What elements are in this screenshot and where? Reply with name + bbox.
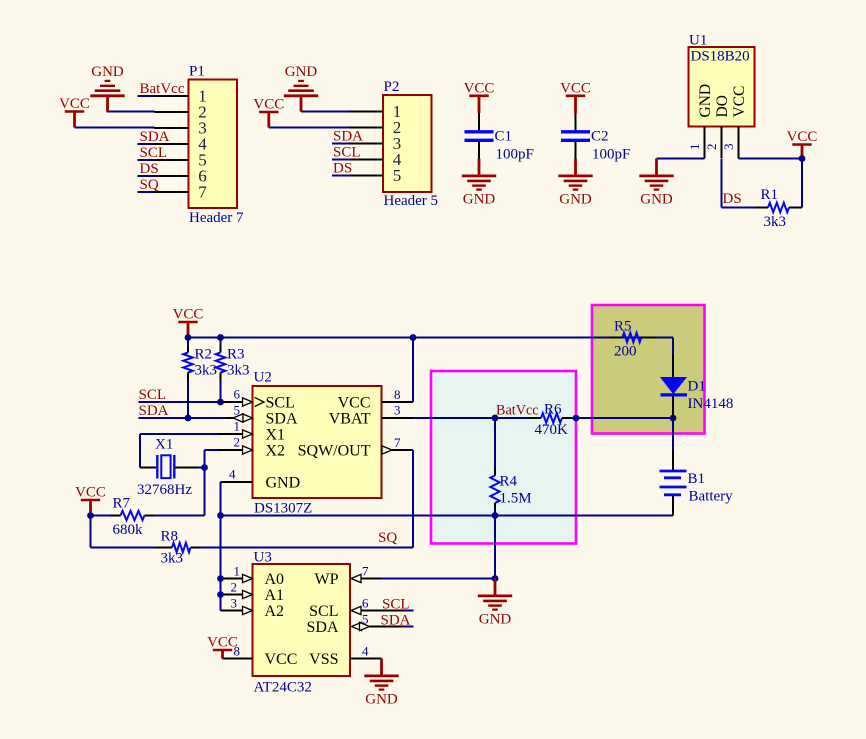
svg-text:SDA: SDA — [266, 411, 298, 428]
svg-text:GND: GND — [559, 192, 592, 208]
wire stub net SCL at U3 — [406, 610, 414, 612]
svg-text:R2: R2 — [195, 347, 213, 363]
ground GND symbol at U1 — [639, 159, 673, 208]
svg-text:SDA: SDA — [140, 129, 170, 145]
svg-text:GND: GND — [640, 192, 673, 208]
svg-text:470K: 470K — [535, 422, 569, 438]
svg-text:3: 3 — [394, 403, 401, 418]
svg-text:SDA: SDA — [333, 129, 363, 145]
ground GND symbol at P1 — [90, 64, 124, 112]
designator R8 — [161, 529, 179, 545]
resistor R5 200 — [609, 333, 655, 342]
value DS1307Z — [254, 501, 312, 517]
wire R6 to D1 node — [572, 417, 673, 419]
IC U1 DS18B20 body — [687, 47, 754, 159]
designator R4 — [500, 474, 518, 490]
svg-text:SQ: SQ — [378, 530, 397, 546]
wire crystal to junction — [198, 468, 205, 516]
net label SCL at P2 — [333, 145, 361, 161]
svg-text:SCL: SCL — [139, 387, 167, 403]
svg-text:1: 1 — [234, 564, 241, 579]
svg-text:VCC: VCC — [207, 635, 238, 651]
svg-text:U1: U1 — [689, 33, 707, 49]
svg-text:R6: R6 — [544, 402, 562, 418]
designator C1 — [495, 129, 513, 145]
ground GND symbol at C2 — [558, 159, 592, 208]
svg-text:C1: C1 — [495, 129, 513, 145]
junction A1 — [217, 591, 224, 598]
svg-text:X1: X1 — [266, 427, 286, 444]
svg-text:7: 7 — [198, 183, 207, 202]
wire stub net SDA at P2 pin 3 — [332, 143, 349, 145]
wire U2 X1 pin to crystal — [140, 434, 219, 468]
svg-text:DS18B20: DS18B20 — [691, 49, 750, 65]
resistor R7 680k — [111, 511, 155, 520]
crystal X1 32768Hz — [140, 455, 198, 479]
value 3k3 at R3 — [227, 363, 250, 379]
svg-text:VCC: VCC — [731, 86, 748, 118]
designator R7 — [113, 496, 131, 512]
wire stub net SDA at P1 pin 4 — [138, 143, 155, 145]
svg-text:3: 3 — [721, 144, 736, 151]
svg-text:X1: X1 — [155, 437, 173, 453]
value 100pF at C2 — [592, 147, 630, 163]
highlight box (olive) around R5/D1 — [592, 305, 705, 434]
wire stub net DS at P2 pin 5 — [332, 175, 349, 177]
svg-text:100pF: 100pF — [496, 147, 534, 163]
designator C2 — [591, 129, 609, 145]
svg-text:VCC: VCC — [59, 96, 90, 112]
wire R4 rail down to WP/GND node — [494, 516, 496, 579]
svg-text:7: 7 — [394, 435, 401, 450]
designator X1 — [155, 437, 173, 453]
value Battery — [689, 489, 734, 505]
designator R1 — [761, 187, 779, 203]
junction at U1 VCC node — [799, 155, 806, 162]
capacitor C2 100pF — [561, 97, 590, 159]
svg-text:680k: 680k — [113, 522, 144, 538]
junction crystal/X2/R7 node — [201, 464, 208, 471]
svg-text:SDA: SDA — [139, 403, 169, 419]
svg-text:AT24C32: AT24C32 — [254, 680, 312, 696]
ground GND symbol at WP node — [478, 579, 512, 628]
svg-text:100pF: 100pF — [592, 147, 630, 163]
resistor R3 3k3 vertical — [216, 338, 226, 403]
svg-text:SCL: SCL — [333, 145, 361, 161]
resistor R6 470K — [528, 413, 573, 422]
value 32768Hz — [137, 482, 192, 498]
svg-text:Battery: Battery — [689, 489, 734, 505]
power VCC symbol at R7 — [75, 485, 106, 516]
junction WP/R4/ground — [492, 575, 499, 582]
svg-text:5: 5 — [234, 403, 241, 418]
svg-text:SDA: SDA — [381, 613, 411, 629]
svg-text:4: 4 — [362, 644, 369, 659]
net label DS at P2 — [333, 161, 352, 177]
svg-text:3k3: 3k3 — [195, 363, 218, 379]
net label DS at P1 — [140, 161, 159, 177]
svg-text:VCC: VCC — [253, 97, 284, 113]
svg-text:8: 8 — [394, 387, 401, 402]
svg-text:VCC: VCC — [464, 80, 495, 96]
wire GND to P1 pin 2 — [107, 111, 155, 113]
svg-text:SCL: SCL — [309, 603, 338, 620]
net label SQ at SQW line — [378, 530, 397, 546]
wire VCC down to R8 line — [90, 516, 92, 548]
svg-text:2: 2 — [231, 580, 238, 595]
value 100pF at C1 — [496, 147, 534, 163]
designator R5 — [614, 319, 632, 335]
net label SCL at U2 — [139, 387, 167, 403]
designator D1 — [688, 379, 706, 395]
junction A0 — [217, 575, 224, 582]
ground GND symbol at P2 — [284, 64, 318, 112]
wire stub net SDA at U3 — [406, 626, 414, 628]
wire R8/SQ line to SQW drop — [91, 547, 414, 549]
svg-text:VCC: VCC — [787, 129, 818, 145]
svg-text:3k3: 3k3 — [161, 551, 184, 567]
svg-text:U3: U3 — [254, 550, 272, 566]
svg-text:SQ: SQ — [140, 177, 159, 193]
net label SDA at P1 — [140, 129, 170, 145]
designator U1 — [689, 33, 707, 49]
svg-text:6: 6 — [234, 387, 241, 402]
wire VCC rail to R5 — [188, 337, 673, 339]
value 1.5M — [500, 491, 532, 507]
pin 3 of U3 (A2) with input arrow — [221, 596, 253, 615]
value 3k3 at R8 — [161, 551, 184, 567]
svg-text:SQW/OUT: SQW/OUT — [298, 443, 371, 460]
wire U1 pin1 to ground — [657, 158, 705, 160]
svg-text:VCC: VCC — [75, 485, 106, 501]
svg-text:Header 5: Header 5 — [384, 193, 439, 209]
svg-text:R8: R8 — [161, 529, 179, 545]
pin 7 of U2 (SQW/OUT) with output arrow — [382, 435, 413, 454]
net label SQ at P1 — [140, 177, 159, 193]
pin 5 of U2 with bidirectional arrows — [226, 403, 253, 423]
pin 3 of U2 (VBAT) — [382, 403, 414, 419]
svg-text:VSS: VSS — [309, 651, 338, 668]
pin 8 of U2 (VCC) — [382, 387, 414, 402]
wire U1 pin3 to VCC — [739, 158, 803, 160]
wire net SCL into U2 pin 6 — [139, 401, 221, 403]
svg-text:GND: GND — [697, 84, 714, 118]
value 3k3 at R1 — [764, 214, 787, 230]
junction SDA/R2 — [185, 415, 192, 422]
designator U2 — [254, 370, 272, 386]
power VCC symbol at P2 — [253, 97, 284, 128]
power VCC symbol at C2 — [560, 80, 591, 97]
wire VBAT to BatVcc node — [413, 417, 529, 419]
svg-text:A1: A1 — [265, 587, 285, 604]
net label SCL at P1 — [140, 145, 168, 161]
resistor R4 1.5M vertical — [490, 418, 499, 516]
wire stub net SCL at P2 pin 4 — [332, 159, 349, 161]
svg-text:GND: GND — [266, 475, 301, 492]
svg-text:P1: P1 — [189, 64, 205, 80]
junction BatVcc/R4 — [492, 415, 499, 422]
net label BatVcc — [140, 81, 185, 97]
svg-text:SCL: SCL — [382, 597, 410, 613]
svg-text:GND: GND — [365, 692, 398, 708]
wire stub net DS at P1 pin 6 — [138, 175, 155, 177]
pin 7 of U3 (WP) with input arrow — [351, 564, 381, 583]
net label BatVcc — [496, 403, 539, 419]
svg-text:A0: A0 — [265, 571, 285, 588]
svg-text:BatVcc: BatVcc — [496, 403, 539, 419]
wire VCC to P2 pin 2 — [269, 127, 349, 129]
junction VCC rail at R2 — [185, 334, 192, 341]
svg-text:2: 2 — [234, 435, 241, 450]
svg-text:R5: R5 — [614, 319, 632, 335]
value Header 5 — [384, 193, 439, 209]
power VCC symbol above R2/R3 — [173, 307, 204, 338]
svg-text:U2: U2 — [254, 370, 272, 386]
power VCC symbol at U3 — [207, 635, 238, 659]
wire VCC down to R1 — [801, 159, 803, 208]
svg-text:VCC: VCC — [560, 80, 591, 96]
wire U2 X2 pin to crystal — [205, 450, 220, 468]
junction R6 right node — [573, 415, 580, 422]
value Header 7 — [189, 210, 244, 226]
junction R4 bottom / rail — [492, 512, 499, 519]
svg-text:C2: C2 — [591, 129, 609, 145]
svg-text:VBAT: VBAT — [329, 411, 371, 428]
pin 6 of U3 (SCL) with input arrow — [351, 596, 406, 615]
capacitor C1 100pF — [465, 97, 494, 159]
ground GND symbol at C1 — [462, 159, 496, 208]
pin 6 of U2 with input arrow — [221, 387, 265, 407]
wire R5 to D1 — [672, 338, 674, 378]
svg-text:DS: DS — [140, 161, 159, 177]
power VCC symbol at P1 — [59, 96, 90, 127]
wire SQW/OUT down to SQ line — [412, 450, 414, 548]
wire stub net SCL at P1 pin 5 — [138, 159, 155, 161]
svg-text:4: 4 — [229, 467, 236, 482]
svg-text:5: 5 — [393, 166, 402, 185]
pin 2 of U3 (A1) with input arrow — [218, 580, 253, 599]
value 680k — [113, 522, 144, 538]
svg-text:1: 1 — [234, 419, 241, 434]
svg-text:7: 7 — [362, 564, 369, 579]
junction VCC/R7/R8 — [87, 512, 94, 519]
resistor R2 3k3 vertical — [183, 338, 193, 419]
IC U2 DS1307Z body — [253, 386, 382, 498]
net label SDA at P2 — [333, 129, 363, 145]
value 200 at R5 — [614, 344, 637, 360]
wire U2 pin8 up to VCC rail — [412, 338, 414, 403]
net label DS at U1 — [723, 191, 742, 207]
svg-text:1: 1 — [687, 144, 702, 151]
value AT24C32 — [254, 680, 312, 696]
net label SDA at U3 — [381, 613, 411, 629]
svg-text:GND: GND — [285, 64, 318, 80]
svg-text:Header 7: Header 7 — [189, 210, 244, 226]
wire WP to ground node — [381, 578, 495, 580]
svg-text:2: 2 — [704, 144, 719, 151]
ground GND symbol at U3 VSS — [364, 659, 398, 708]
value 3k3 at R2 — [195, 363, 218, 379]
svg-text:A2: A2 — [265, 603, 285, 620]
junction VCC rail at R3 — [217, 334, 224, 341]
svg-text:SCL: SCL — [266, 395, 295, 412]
value IN4148 — [688, 396, 734, 412]
svg-text:GND: GND — [479, 612, 512, 628]
highlight box (cyan) around R4/R6 BatVcc divider — [431, 371, 576, 544]
battery B1 — [660, 450, 687, 516]
designator U3 — [254, 550, 272, 566]
designator R2 — [195, 347, 213, 363]
pin 4 of U3 (VSS) — [350, 644, 382, 659]
svg-text:GND: GND — [463, 192, 496, 208]
wire bottom rail to battery — [221, 515, 674, 517]
svg-text:WP: WP — [315, 571, 339, 588]
designator R3 — [227, 347, 245, 363]
svg-text:3k3: 3k3 — [764, 214, 787, 230]
svg-text:5: 5 — [362, 612, 369, 627]
svg-text:R4: R4 — [500, 474, 518, 490]
junction VCC rail at pin8 drop — [410, 334, 417, 341]
designator P2 — [384, 79, 400, 95]
svg-text:DO: DO — [714, 95, 731, 117]
power VCC symbol at C1 — [464, 80, 495, 97]
svg-text:3: 3 — [231, 596, 238, 611]
svg-text:P2: P2 — [384, 79, 400, 95]
net label SCL at U3 — [382, 597, 410, 613]
svg-text:VCC: VCC — [338, 395, 371, 412]
pin 1 of U2 (X1) with input arrow — [219, 419, 253, 439]
svg-text:DS: DS — [723, 191, 742, 207]
svg-text:R7: R7 — [113, 496, 131, 512]
svg-text:32768Hz: 32768Hz — [137, 482, 192, 498]
wire stub net SQ at P1 pin 7 — [138, 191, 155, 193]
pin 2 of U2 (X2) with input arrow — [219, 435, 253, 455]
designator B1 — [688, 471, 706, 487]
wire U2 GND pin down to U3 address pins — [220, 482, 222, 611]
resistor R1 3k3 — [756, 203, 801, 212]
svg-text:DS: DS — [333, 161, 352, 177]
resistor R8 3k3 — [157, 543, 201, 552]
wire D1 node down to battery — [672, 418, 674, 450]
svg-text:D1: D1 — [688, 379, 706, 395]
pin 5 of U3 (SDA) with bidirectional arrows — [352, 612, 406, 631]
wire stub net BatVcc at P1 pin 1 — [138, 95, 155, 97]
IC U3 AT24C32 body — [253, 564, 351, 676]
svg-text:6: 6 — [362, 596, 369, 611]
wire GND to P2 pin 1 — [301, 111, 349, 113]
svg-text:DS1307Z: DS1307Z — [254, 501, 312, 517]
svg-text:SCL: SCL — [140, 145, 168, 161]
junction D1/battery node — [670, 415, 677, 422]
svg-text:3k3: 3k3 — [227, 363, 250, 379]
junction GND drop / bottom rail — [217, 512, 224, 519]
svg-text:VCC: VCC — [265, 651, 298, 668]
svg-text:GND: GND — [91, 64, 124, 80]
diode D1 IN4148 — [661, 378, 688, 419]
power VCC symbol at U1 — [787, 129, 818, 158]
svg-text:R1: R1 — [761, 187, 779, 203]
svg-text:200: 200 — [614, 344, 637, 360]
svg-text:SDA: SDA — [306, 619, 338, 636]
svg-text:X2: X2 — [266, 443, 286, 460]
connector P2 Header 5 — [349, 95, 432, 192]
junction SCL/R3 — [217, 399, 224, 406]
pin 1 of U3 (A0) with input arrow — [218, 564, 253, 583]
designator P1 — [189, 64, 205, 80]
wire R7 line — [91, 515, 205, 517]
value 470K — [535, 422, 569, 438]
svg-text:B1: B1 — [688, 471, 706, 487]
svg-text:R3: R3 — [227, 347, 245, 363]
pin 4 of U2 (GND) — [221, 467, 253, 483]
svg-text:VCC: VCC — [173, 307, 204, 323]
net label SDA at U2 — [139, 403, 169, 419]
designator R6 — [544, 402, 562, 418]
wire VCC to P1 pin 3 — [75, 127, 155, 129]
connector P1 Header 7 — [155, 80, 238, 209]
svg-text:IN4148: IN4148 — [688, 396, 734, 412]
wire net SDA into U2 pin 5 — [139, 417, 227, 419]
svg-text:BatVcc: BatVcc — [140, 81, 185, 97]
wire DS net from U1 pin2 (DO) — [722, 159, 803, 208]
pin 8 of U3 (VCC) — [223, 644, 253, 659]
svg-text:1.5M: 1.5M — [500, 491, 532, 507]
